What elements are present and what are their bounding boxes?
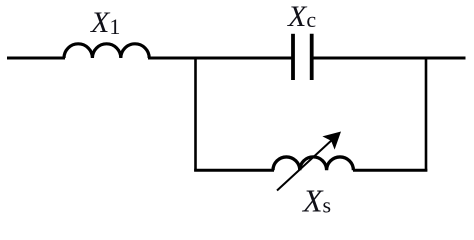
inductor X1 [64, 44, 149, 58]
wire: left feed into X1 [7, 57, 65, 60]
wire: right vertical branch [425, 57, 428, 172]
wire: Xc to right end [313, 57, 466, 60]
svg-text:X1: X1 [90, 6, 120, 39]
capacitor C right plate [310, 34, 314, 80]
arrowhead of variable inductor Xs [322, 132, 341, 150]
inductor Xs (variable) [273, 157, 353, 170]
arrow shaft of variable inductor Xs [277, 139, 333, 191]
wire: X1 to capacitor Xc [148, 57, 292, 60]
svg-text:Xc: Xc [287, 0, 316, 33]
wire: Xs to bottom right [353, 169, 427, 172]
svg-text:Xs: Xs [301, 183, 331, 219]
capacitor C left plate [291, 34, 295, 80]
wire: left vertical branch [194, 57, 197, 172]
wire: bottom left to Xs [194, 169, 274, 172]
